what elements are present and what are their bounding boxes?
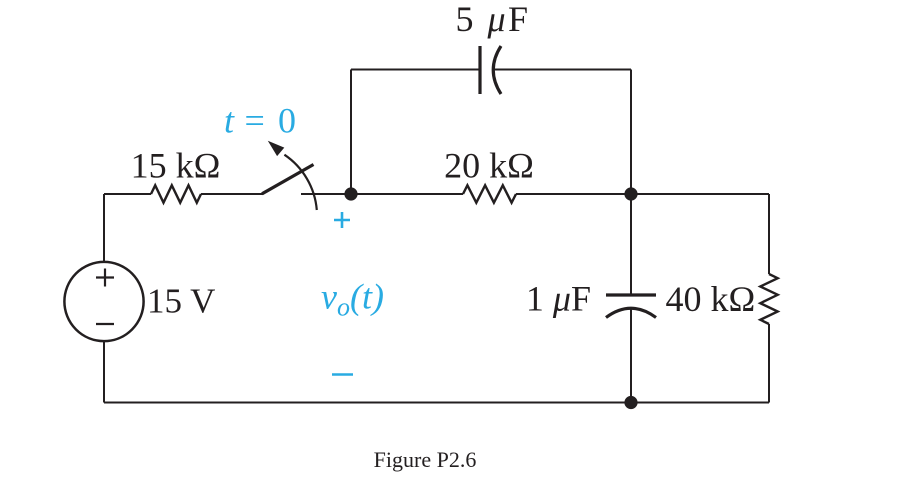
wire right vertical lower (768, 324, 770, 403)
wire 1uF bottom plate to bottom node (630, 308, 632, 402)
wire 5uF branch top-left (351, 69, 480, 71)
wire left vertical upper (103, 194, 105, 262)
svg-text:20 kΩ: 20 kΩ (444, 146, 534, 186)
resistor 15 kΩ (151, 185, 201, 202)
svg-text:t=0: t=0 (224, 101, 296, 141)
switch arrowhead (268, 141, 285, 156)
wire node A to 20k (351, 193, 463, 195)
switch motion arc (284, 155, 316, 210)
wire right vertical upper (768, 194, 770, 274)
wire bottom (104, 402, 769, 404)
svg-text:vo(t): vo(t) (321, 277, 384, 322)
capacitor 1 uF plates (606, 295, 656, 318)
node A junction dot (344, 187, 357, 200)
svg-text:5 μF: 5 μF (455, 0, 530, 39)
wire node B to 1uF top plate (630, 194, 632, 295)
plus sign of vo(t) (334, 212, 350, 228)
capacitor 5 uF plates (480, 46, 501, 94)
svg-text:Figure P2.6: Figure P2.6 (374, 447, 477, 472)
wire left vertical lower (103, 341, 105, 403)
wire 5uF branch top-right (494, 69, 631, 71)
svg-text:40 kΩ: 40 kΩ (666, 279, 756, 319)
voltage source minus sign (96, 323, 114, 325)
node B junction dot (624, 187, 637, 200)
wire resistor to switch hinge (201, 193, 263, 195)
resistor 40 kΩ (760, 274, 777, 324)
voltage source circle (64, 262, 143, 341)
svg-text:15 kΩ: 15 kΩ (131, 146, 221, 186)
switch blade (262, 165, 314, 194)
wire node B to top-right corner (631, 193, 769, 195)
wire 5uF branch left vertical (350, 70, 352, 195)
wire top-left horizontal (104, 193, 151, 195)
wire 5uF branch right vertical (630, 70, 632, 195)
voltage source plus sign (96, 269, 114, 287)
svg-text:1 μF: 1 μF (526, 279, 591, 319)
wire switch contact to node A (301, 193, 351, 195)
bottom node junction dot (624, 396, 637, 409)
wire 20k to node B (516, 193, 631, 195)
resistor 20 kΩ (463, 185, 516, 202)
minus sign of vo(t) (332, 373, 353, 376)
svg-text:15 V: 15 V (147, 282, 215, 321)
